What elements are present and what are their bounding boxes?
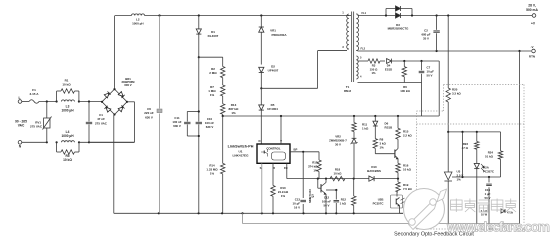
svg-text:MBR20200CTG: MBR20200CTG	[388, 26, 409, 30]
svg-text:7.5 kΩ: 7.5 kΩ	[403, 187, 412, 191]
svg-text:630 V: 630 V	[145, 115, 153, 119]
svg-text:UF4007: UF4007	[268, 69, 279, 73]
svg-text:275 VAC: 275 VAC	[30, 125, 43, 129]
svg-text:2 MΩ: 2 MΩ	[209, 71, 217, 75]
svg-text:1 kΩ: 1 kΩ	[340, 202, 347, 206]
svg-text:1%: 1%	[371, 71, 376, 75]
svg-text:51 kΩ: 51 kΩ	[485, 155, 494, 159]
svg-text:10 kΩ: 10 kΩ	[334, 172, 343, 176]
svg-text:CONTROL: CONTROL	[266, 146, 281, 150]
svg-text:FL2: FL2	[361, 47, 366, 51]
svg-text:1000 µH: 1000 µH	[132, 22, 143, 26]
svg-text:VR1: VR1	[270, 29, 276, 33]
svg-text:3.15 A: 3.15 A	[29, 92, 39, 96]
svg-text:LinkSwitch-PH: LinkSwitch-PH	[228, 145, 254, 149]
svg-text:1000 µH: 1000 µH	[61, 134, 74, 138]
svg-text:16 V: 16 V	[294, 206, 300, 210]
svg-text:RM-8: RM-8	[344, 89, 351, 93]
svg-text:-V: -V	[531, 45, 534, 49]
svg-text:UF4004: UF4004	[267, 107, 278, 111]
svg-text:www.elecfans.com: www.elecfans.com	[446, 220, 550, 235]
svg-text:DL4007: DL4007	[208, 34, 219, 38]
svg-text:1%: 1%	[313, 169, 318, 173]
svg-text:500 mA: 500 mA	[526, 8, 538, 12]
svg-text:275 VAC: 275 VAC	[95, 121, 108, 125]
svg-text:630 V: 630 V	[173, 124, 181, 128]
svg-text:1%: 1%	[231, 111, 236, 115]
svg-text:1%: 1%	[210, 172, 215, 176]
svg-text:S: S	[260, 166, 262, 170]
svg-text:RTN: RTN	[529, 55, 535, 59]
svg-text:ES1D: ES1D	[385, 67, 392, 71]
svg-text:1%: 1%	[380, 146, 385, 150]
svg-text:2.2 kΩ: 2.2 kΩ	[403, 134, 412, 138]
svg-text:630 V: 630 V	[206, 125, 214, 129]
svg-text:50 V: 50 V	[427, 74, 433, 78]
svg-text:50 V: 50 V	[485, 196, 491, 200]
svg-text:1%: 1%	[281, 194, 286, 198]
svg-text:BP: BP	[294, 147, 298, 151]
svg-text:PC357C: PC357C	[373, 202, 385, 206]
svg-text:L: L	[18, 96, 20, 100]
svg-text:LNK417EG: LNK417EG	[233, 154, 250, 158]
svg-text:D: D	[258, 139, 260, 143]
svg-text:10 kΩ: 10 kΩ	[63, 158, 72, 162]
svg-text:1000 µH: 1000 µH	[61, 109, 74, 113]
svg-text:3.3 kΩ: 3.3 kΩ	[452, 92, 461, 96]
svg-text:P6KE200A: P6KE200A	[271, 33, 287, 37]
svg-text:MMBT4403: MMBT4403	[308, 189, 312, 203]
svg-text:600 V: 600 V	[124, 83, 131, 87]
svg-text:1 kΩ: 1 kΩ	[362, 127, 369, 131]
svg-text:RS1B: RS1B	[385, 126, 393, 130]
svg-text:1%: 1%	[210, 93, 215, 97]
svg-text:10 kΩ: 10 kΩ	[62, 83, 71, 87]
svg-text:100 kΩ: 100 kΩ	[400, 89, 410, 93]
svg-text:35 V: 35 V	[423, 37, 429, 41]
svg-text:BAV19WS: BAV19WS	[367, 169, 381, 173]
svg-text:28 V,: 28 V,	[528, 4, 536, 8]
svg-text:50 V: 50 V	[324, 204, 330, 208]
svg-text:10 W: 10 W	[481, 213, 488, 217]
svg-text:47.5k: 47.5k	[507, 212, 514, 215]
svg-text:FL1: FL1	[362, 11, 367, 15]
svg-text:30 V: 30 V	[335, 143, 341, 147]
svg-text:1%: 1%	[457, 178, 462, 182]
svg-text:VAC: VAC	[18, 124, 25, 128]
svg-text:PC357C: PC357C	[483, 170, 495, 174]
svg-text:10 kΩ: 10 kΩ	[403, 168, 412, 172]
